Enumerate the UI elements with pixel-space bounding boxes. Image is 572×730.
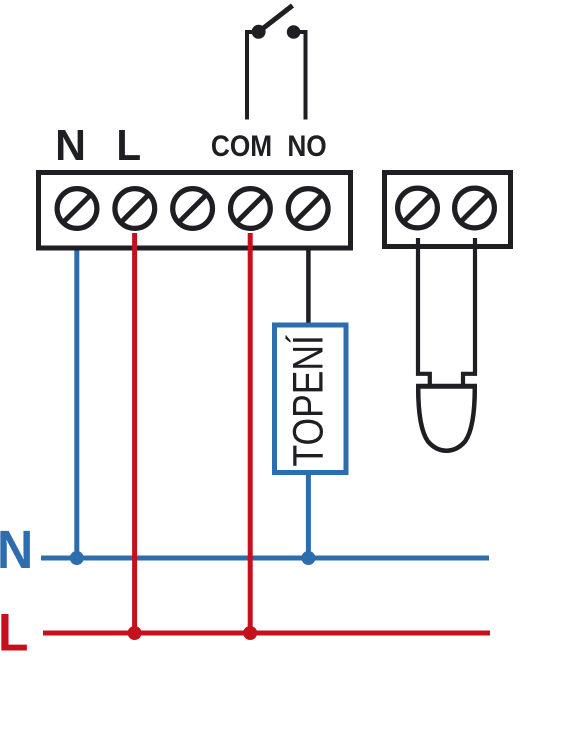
junction dot L-wire2	[128, 626, 142, 640]
terminal block TB1	[39, 173, 351, 249]
wire L (red) terminal 2 to L bus	[132, 233, 137, 633]
switch S1 right lead wire	[294, 32, 306, 120]
screw terminal 7	[455, 188, 495, 228]
sensor left lead	[418, 238, 430, 384]
screw terminal 2 (L)	[115, 189, 155, 229]
svg-text:L: L	[116, 120, 141, 169]
switch S1 left lead wire	[247, 32, 259, 120]
wire load to N bus (blue)	[306, 472, 311, 558]
junction dot N-wire1	[70, 551, 84, 565]
screw terminal 3	[173, 189, 213, 229]
switch S1 right contact	[287, 25, 301, 39]
screw terminal 5 (NO)	[288, 189, 328, 229]
wire COM (red) terminal 4 to L bus	[248, 233, 253, 633]
wire N (blue) terminal 1 to N bus	[74, 233, 79, 558]
svg-text:L: L	[0, 602, 28, 662]
screw terminal 1 (N)	[57, 189, 97, 229]
sensor right lead	[463, 238, 475, 384]
L bus line (red)	[43, 631, 490, 636]
svg-text:COM: COM	[211, 130, 272, 163]
screw terminal 4 (COM)	[231, 189, 271, 229]
screw terminal 6	[398, 188, 438, 228]
switch S1 left contact	[252, 25, 266, 39]
sensor bulb body	[418, 388, 475, 451]
svg-text:N: N	[55, 121, 86, 170]
junction dot L-wire4	[243, 626, 257, 640]
svg-text:N: N	[0, 520, 33, 580]
sensor bulb top	[416, 384, 477, 389]
wire NO (black) terminal 5 to load box	[306, 233, 311, 327]
svg-text:TOPENÍ: TOPENÍ	[284, 335, 332, 466]
switch S1 lever	[259, 6, 293, 32]
junction dot N-load	[301, 551, 315, 565]
svg-text:NO: NO	[287, 130, 326, 163]
N bus line (blue)	[41, 556, 489, 561]
terminal block TB2 (sensor)	[385, 173, 511, 247]
load box TOPENI	[275, 325, 347, 473]
